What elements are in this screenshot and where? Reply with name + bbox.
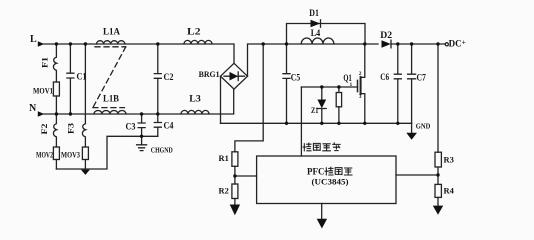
wire N rail: [44, 89, 234, 114]
inductor L1A: [97, 26, 125, 44]
svg-text:C5: C5: [291, 73, 301, 83]
ground earth arrow below MOV3: [81, 170, 90, 175]
svg-text:MOV1: MOV1: [33, 87, 53, 96]
wire BR1 right vertex to top rail: [248, 44, 379, 76]
inductor L1B: [94, 93, 126, 114]
fuse F3: [66, 44, 85, 147]
svg-text:(UC3845): (UC3845): [312, 177, 349, 187]
svg-text:PFC: PFC: [307, 167, 325, 177]
transformer core dashed: [93, 47, 126, 108]
wire R3 R4 tap to controller: [396, 174, 438, 176]
resistor R4: [435, 184, 455, 205]
svg-text:L2: L2: [187, 26, 201, 36]
diode D2: [380, 30, 392, 48]
svg-text:MOV2: MOV2: [36, 151, 53, 160]
svg-text:C2: C2: [164, 72, 174, 82]
svg-text:1: 1: [350, 82, 353, 88]
inductor L3: [181, 93, 209, 114]
wire R1 R2 tap to controller: [235, 175, 257, 177]
svg-text:L1A: L1A: [103, 26, 120, 36]
inductor L4: [301, 28, 334, 44]
capacitor C6: [380, 44, 401, 123]
svg-text:L: L: [30, 34, 37, 45]
svg-text:D2: D2: [380, 30, 392, 40]
wire MOV bottom rail: [56, 136, 157, 169]
ground arrow below R4: [433, 206, 443, 215]
node N input terminal: [29, 103, 44, 117]
op-amp U1 PFC controller box: [257, 156, 396, 204]
capacitor C4: [154, 114, 174, 136]
varistor MOV1: [33, 82, 59, 114]
svg-text:GND: GND: [416, 121, 431, 130]
node L input terminal: [30, 34, 44, 47]
wire DC- ground rail: [221, 122, 412, 124]
gate resistor (unlabeled): [336, 87, 341, 123]
bridge rectifier BRG1: [199, 63, 248, 89]
wire BR1 left vertex down to DC- rail: [220, 76, 222, 123]
resistor R1: [219, 152, 238, 184]
svg-text:R3: R3: [444, 155, 454, 165]
svg-text:C7: C7: [417, 73, 427, 83]
resistor R2: [219, 184, 238, 205]
wire L rail top: [44, 44, 234, 63]
zener Z1: [311, 87, 326, 123]
svg-text:BRG1: BRG1: [199, 69, 220, 79]
svg-text:F2: F2: [40, 124, 49, 135]
ground arrow below controller box: [317, 204, 327, 229]
svg-text:L1B: L1B: [103, 93, 119, 103]
wire output divider drop to R3: [437, 44, 439, 152]
svg-text:L4: L4: [311, 28, 321, 38]
fuse F2: [40, 114, 57, 147]
svg-text:MOV3: MOV3: [61, 151, 80, 160]
wire output rail after D2: [391, 43, 445, 45]
svg-text:CHGND: CHGND: [151, 146, 173, 155]
svg-text:F3: F3: [66, 123, 75, 134]
svg-text:C6: C6: [380, 72, 389, 82]
node DC+ output terminal: [445, 38, 466, 49]
ground GND arrow: [406, 121, 431, 139]
wire control signal line: [300, 87, 302, 156]
svg-text:R2: R2: [219, 186, 229, 196]
label control signal chinese: [303, 143, 340, 151]
diode D1 bypass branch: [287, 8, 366, 44]
resistor R3: [435, 152, 454, 184]
ground arrow below R2: [230, 205, 240, 216]
transistor Q1 MOSFET: [343, 44, 364, 123]
inductor L2: [184, 26, 212, 44]
svg-text:L3: L3: [189, 93, 201, 103]
svg-text:2: 2: [359, 71, 362, 77]
wire sense drop to R1: [235, 44, 263, 152]
varistor MOV3: [61, 147, 88, 169]
svg-text:Z1: Z1: [311, 105, 319, 115]
fuse F1: [41, 44, 57, 82]
capacitor C3: [126, 114, 146, 145]
label PFC controller chinese: [325, 167, 352, 175]
svg-text:C4: C4: [164, 121, 174, 131]
svg-text:R4: R4: [444, 186, 455, 196]
capacitor C1: [67, 44, 87, 114]
svg-text:N: N: [29, 103, 37, 114]
capacitor C2: [154, 44, 174, 114]
capacitor C7: [408, 44, 427, 123]
svg-text:R1: R1: [219, 153, 229, 163]
svg-text:C3: C3: [126, 122, 136, 132]
wire gate line: [301, 86, 357, 88]
capacitor C5: [283, 44, 301, 123]
svg-text:3: 3: [359, 94, 362, 100]
svg-text:D1: D1: [309, 8, 319, 18]
chassis ground CHGND: [137, 145, 174, 155]
svg-text:F1: F1: [41, 57, 50, 68]
varistor MOV2: [36, 147, 59, 169]
